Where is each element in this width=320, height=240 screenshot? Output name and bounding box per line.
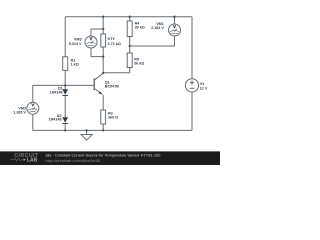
svg-text:1N4148: 1N4148	[50, 91, 63, 95]
svg-text:2.71 kΩ: 2.71 kΩ	[108, 42, 121, 46]
node A R4/R5/VM1 junction	[129, 45, 131, 47]
wire VM1 top lead	[174, 17, 176, 24]
wire right vertical from top rail to V1 plus	[191, 17, 193, 79]
wire R1 bottom to D1 through base node	[64, 70, 66, 89]
voltmeter VM2	[13, 102, 39, 114]
wire VM3 top lead	[91, 29, 103, 36]
node VM3 top / KTY lead junction	[102, 28, 104, 30]
diode D1	[50, 87, 68, 96]
wire right vertical from V1 minus to bottom rail	[191, 92, 193, 130]
svg-text:1N4148: 1N4148	[49, 118, 62, 122]
footer bar	[0, 151, 220, 165]
svg-text:BC547B: BC547B	[105, 85, 119, 89]
voltage source V1	[185, 79, 207, 92]
wire bottom rail	[33, 129, 192, 131]
wire R4 top lead	[129, 17, 131, 21]
node base / R1 / D1 junction	[64, 84, 66, 86]
resistor R5	[127, 53, 144, 68]
node top rail / VM1 junction	[173, 16, 175, 18]
wire R4 bottom to node A	[129, 37, 131, 47]
svg-text:http://circuitlab.com/c6vw3e43: http://circuitlab.com/c6vw3e43/	[46, 158, 102, 163]
svg-text:2.181 V: 2.181 V	[151, 26, 164, 30]
wire base node to Q1 base	[33, 84, 94, 86]
wire KTY top lead	[102, 17, 104, 34]
transistor Q1	[94, 73, 119, 94]
wire R3 bottom lead	[102, 124, 104, 130]
svg-text:5.313 V: 5.313 V	[69, 42, 82, 46]
svg-text:56 kΩ: 56 kΩ	[134, 62, 144, 66]
resistor R4	[127, 21, 145, 37]
voltmeter VM3	[69, 36, 97, 48]
footer site title text	[46, 153, 162, 158]
svg-text:39 kΩ: 39 kΩ	[135, 26, 145, 30]
wire D2 to bottom rail	[64, 123, 66, 130]
node collector / R5 junction	[102, 72, 104, 74]
wire VM2 bottom lead	[32, 115, 34, 131]
wire KTY bottom / Q1 collector column	[102, 47, 104, 73]
node bottom rail / R3 junction	[102, 129, 104, 131]
wire R5 bottom to collector node	[103, 68, 130, 73]
ground	[81, 130, 92, 140]
node bottom rail / D2 junction	[64, 129, 66, 131]
svg-text:LAB: LAB	[27, 158, 38, 164]
svg-text:12 V: 12 V	[200, 87, 208, 91]
svg-text:V1: V1	[200, 82, 205, 86]
svg-text:KTY: KTY	[108, 37, 116, 41]
svg-text:1 kΩ: 1 kΩ	[71, 63, 79, 67]
wire node A to VM1 bottom	[130, 36, 175, 46]
resistor KTY	[101, 34, 121, 47]
node top rail / KTY junction	[102, 16, 104, 18]
wire VM2 top lead	[32, 85, 34, 102]
wire Q1 emitter to R3	[102, 95, 104, 110]
diode D2	[49, 114, 69, 124]
node bottom rail / ground junction	[85, 129, 87, 131]
svg-text:VM3: VM3	[74, 37, 82, 41]
svg-text:1.385 V: 1.385 V	[13, 110, 26, 114]
svg-text:site : Constant Current Source: site : Constant Current Source for Tempe…	[46, 153, 162, 158]
wire top rail	[65, 16, 192, 18]
voltmeter VM1	[151, 22, 180, 36]
footer url text	[46, 158, 102, 163]
wire VM3 bottom lead	[91, 48, 103, 57]
node VM3 bottom / collector column junction	[102, 55, 104, 57]
svg-text:360 Ω: 360 Ω	[108, 115, 118, 119]
wire left vertical from top rail to R1	[64, 17, 66, 57]
resistor R1	[63, 57, 79, 71]
footer CircuitLab logo	[11, 153, 39, 163]
node top rail / R4 junction	[129, 16, 131, 18]
wire D1 to D2	[64, 95, 66, 117]
resistor R3	[101, 110, 118, 124]
wire R5 top lead	[129, 46, 131, 53]
